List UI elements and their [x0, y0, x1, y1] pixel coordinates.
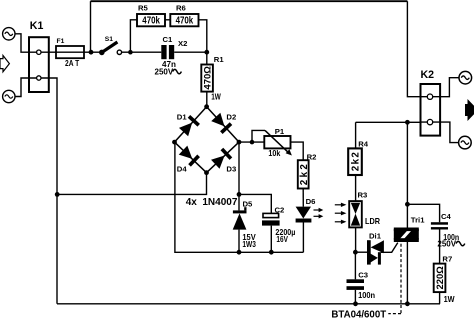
svg-text:D5: D5	[243, 199, 254, 208]
svg-text:S1: S1	[105, 36, 113, 43]
svg-text:C4: C4	[441, 212, 452, 221]
svg-text:D4: D4	[177, 164, 188, 173]
wire K2 upper right to AC	[440, 78, 459, 97]
svg-text:X2: X2	[178, 39, 187, 48]
node C2 bottom	[269, 250, 274, 255]
potentiometer P1	[264, 130, 292, 155]
wire diac to triac gate	[381, 243, 398, 253]
svg-text:220Ω: 220Ω	[435, 266, 445, 290]
wire C1 to R1 node	[174, 51, 207, 53]
svg-text:470k: 470k	[176, 16, 194, 27]
node bridge left	[172, 140, 177, 145]
AC source bottom-left	[3, 90, 15, 102]
wire S1 to C1	[122, 51, 161, 53]
wire R4 to R3	[355, 176, 357, 202]
svg-text:D6: D6	[306, 197, 316, 206]
svg-text:4x 1N4007: 4x 1N4007	[186, 197, 238, 208]
wire top bus	[91, 0, 408, 2]
wire K1 lower to bottom rail	[49, 78, 57, 304]
svg-text:P1: P1	[275, 127, 285, 136]
node D5 top	[237, 192, 242, 197]
wire bridge bottom to neutral	[57, 173, 207, 195]
connector K1	[29, 37, 49, 92]
AC source top-left	[3, 28, 15, 40]
wire D5 node to C2	[239, 194, 271, 213]
node snubber branch	[405, 202, 410, 207]
LDR R3	[349, 201, 362, 227]
svg-text:D3: D3	[226, 164, 236, 173]
svg-text:K2: K2	[421, 69, 435, 81]
capacitor C3	[347, 252, 365, 304]
node neutral/bridge	[55, 192, 60, 197]
lamp output arrow	[465, 99, 474, 121]
svg-text:D2: D2	[226, 113, 236, 122]
wire top-left drop to fuse node	[90, 1, 92, 52]
wire top-right drop to K2 upper	[407, 1, 420, 97]
capacitor C4	[431, 222, 448, 229]
svg-text:R4: R4	[358, 140, 369, 149]
capacitor C2	[262, 213, 280, 252]
wire D6 to minus rail	[302, 223, 304, 253]
node K2 lower junction	[405, 120, 410, 125]
wire bottom rail	[57, 303, 440, 305]
svg-text:250V: 250V	[155, 68, 174, 77]
dashed leader to triac type	[388, 244, 401, 314]
svg-text:10k: 10k	[268, 148, 280, 158]
wire K1 to S1 through F1	[49, 51, 101, 53]
svg-text:100n: 100n	[358, 291, 375, 300]
wire bridge right to P1	[239, 141, 264, 143]
svg-text:C3: C3	[358, 271, 368, 280]
wire down to R4	[355, 122, 357, 148]
wire node to Di1	[355, 251, 367, 253]
svg-text:D1: D1	[177, 113, 188, 122]
resistor R2	[298, 160, 310, 188]
wire K2 lower right to AC	[440, 122, 459, 143]
svg-text:2k2: 2k2	[351, 152, 362, 172]
diode D2	[211, 112, 232, 134]
svg-text:16V: 16V	[276, 234, 288, 244]
svg-text:R6: R6	[176, 4, 186, 13]
svg-text:F1: F1	[57, 38, 65, 45]
resistor R5	[137, 14, 165, 27]
node after fuse	[89, 50, 94, 55]
svg-text:1W: 1W	[211, 93, 221, 102]
wire AC bottom-left to K1	[15, 78, 29, 97]
node triac/bottom rail	[405, 301, 410, 306]
node bridge bottom	[204, 170, 209, 175]
wire R7 to bottom rail	[439, 292, 441, 304]
svg-text:R5: R5	[138, 4, 149, 13]
svg-text:K1: K1	[30, 20, 44, 32]
node D5 bottom	[237, 250, 242, 255]
svg-text:C2: C2	[275, 205, 285, 214]
wire riser to R5	[130, 20, 137, 52]
LED D6 light arrows	[314, 208, 324, 219]
wire wiper loop	[252, 130, 265, 142]
wire R6 down to node	[199, 20, 207, 52]
node C3/bottom rail	[353, 301, 358, 306]
wire triac MT2 down	[406, 242, 408, 304]
wire R2 to D6	[302, 189, 304, 207]
wire triac MT1 up	[406, 122, 408, 227]
resistor R4	[348, 148, 362, 175]
wire snubber branch to C4	[407, 204, 439, 222]
resistor R7	[434, 264, 446, 293]
AC source top-right	[459, 71, 472, 84]
wire bridge right down to D5 node	[238, 142, 240, 194]
svg-text:R2: R2	[307, 153, 317, 162]
node bridge right	[237, 140, 242, 145]
svg-text:2k2: 2k2	[299, 164, 310, 186]
node R3/C3/Di1	[353, 250, 358, 255]
svg-text:R7: R7	[442, 254, 452, 263]
wire K2 branch row	[356, 121, 408, 123]
svg-text:LDR: LDR	[365, 217, 380, 226]
node S1/R5 riser	[128, 50, 133, 55]
resistor R6	[170, 14, 198, 27]
fuse F1	[56, 46, 84, 58]
diode D4	[178, 145, 199, 166]
wire AC top-left to K1	[15, 34, 29, 52]
capacitor C1	[161, 45, 174, 59]
svg-text:1W3: 1W3	[242, 240, 256, 249]
wire junction to K2 lower	[407, 121, 420, 123]
wire C4 to R7	[439, 230, 441, 264]
bridge rectifier diamond wires	[175, 107, 240, 173]
connector K2	[421, 84, 441, 136]
svg-text:1W: 1W	[444, 295, 455, 304]
svg-text:R3: R3	[358, 191, 368, 200]
svg-text:2A T: 2A T	[65, 58, 80, 68]
diode D3	[211, 148, 233, 169]
mains input arrow	[0, 56, 9, 72]
svg-text:470Ω: 470Ω	[202, 66, 213, 90]
svg-text:R1: R1	[214, 55, 225, 64]
triac Tri1	[394, 228, 419, 243]
resistor R1	[201, 52, 213, 106]
diac Di1	[367, 240, 384, 264]
node P1 wiper tie	[250, 140, 255, 145]
node bridge top	[204, 104, 209, 109]
wire R3 to node	[355, 227, 357, 252]
svg-text:Tri1: Tri1	[411, 216, 425, 225]
LED D6	[296, 207, 312, 223]
svg-text:C1: C1	[163, 35, 174, 44]
switch S1	[99, 42, 122, 55]
wire R5-R6	[165, 19, 170, 21]
node C1/R1	[204, 50, 209, 55]
diode D1	[179, 115, 200, 137]
zener D5	[233, 194, 247, 252]
LDR light arrows	[335, 203, 347, 224]
svg-text:470k: 470k	[142, 16, 160, 27]
svg-text:Di1: Di1	[369, 231, 382, 240]
AC source bottom-right	[459, 136, 472, 149]
svg-text:250V: 250V	[437, 240, 456, 249]
wire P1 to R2	[291, 142, 304, 160]
wire bridge left down and minus rail	[175, 142, 304, 252]
svg-text:BTA04/600T: BTA04/600T	[331, 309, 386, 319]
